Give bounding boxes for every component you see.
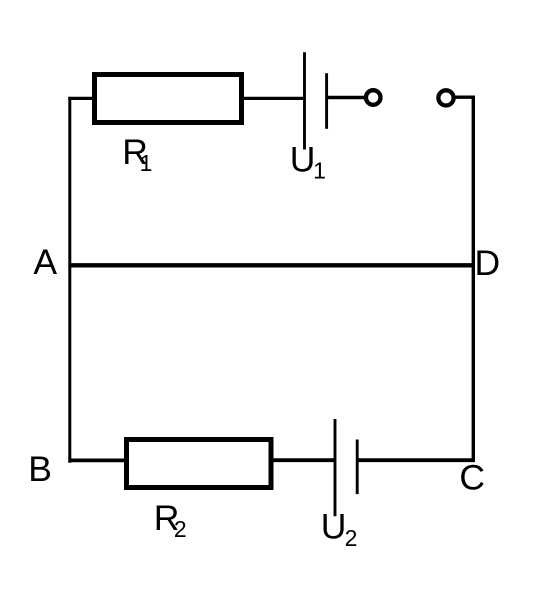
svg-text:U: U — [290, 140, 316, 180]
wire: R1 to U1 — [244, 97, 304, 100]
resistor R1 — [95, 75, 242, 123]
svg-text:1: 1 — [140, 150, 153, 176]
wire: R2 to U2 — [274, 458, 335, 462]
battery U1 short plate — [325, 73, 328, 129]
wire: top left horizontal to R1 — [68, 97, 94, 100]
wire: node line A to D — [68, 263, 475, 267]
battery U2 long plate — [334, 419, 337, 516]
wire: B to R2 — [68, 458, 127, 462]
wire: U1 to switch contact — [328, 96, 365, 99]
wire: right contact to right rail — [456, 95, 476, 98]
svg-text:C: C — [459, 458, 485, 498]
svg-text:2: 2 — [174, 516, 187, 542]
battery U1 long plate — [303, 52, 306, 149]
wire: U2 to C — [359, 458, 476, 462]
svg-text:1: 1 — [313, 158, 326, 184]
wire: left vertical A-B branch — [68, 97, 71, 463]
svg-text:U: U — [321, 507, 347, 547]
wire: right vertical D-C rail — [472, 96, 475, 462]
svg-text:2: 2 — [345, 525, 358, 551]
svg-text:A: A — [33, 242, 57, 282]
svg-text:D: D — [475, 243, 501, 283]
switch contact circle (left) — [366, 90, 381, 105]
switch contact circle (right) — [438, 90, 453, 105]
svg-text:B: B — [28, 449, 52, 489]
resistor R2 — [127, 440, 272, 488]
battery U2 short plate — [356, 440, 359, 495]
